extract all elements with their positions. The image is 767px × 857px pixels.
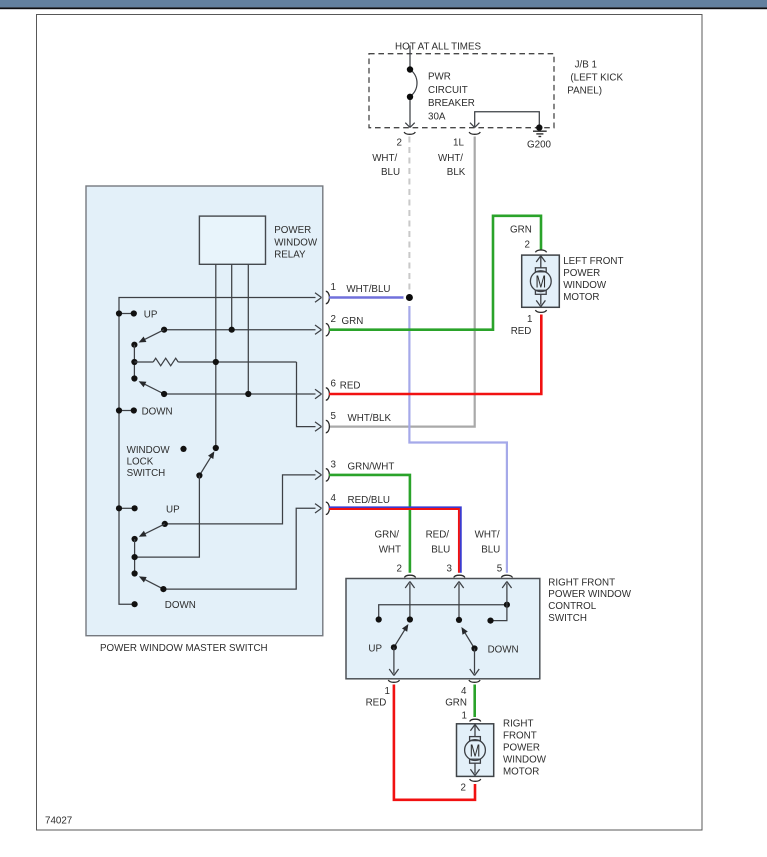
svg-text:PWR: PWR — [428, 72, 451, 83]
wire RED from control pin 1 to right front motor pin 2 — [394, 685, 475, 800]
wire WHT/BLU dashed from J/B pin 2 — [408, 137, 410, 296]
wire: left window DOWN throw row to pin 6 — [164, 393, 315, 395]
svg-text:BLU: BLU — [481, 545, 500, 556]
motor M symbol (left front) — [530, 256, 551, 307]
connector pin 2 (master) — [326, 324, 330, 336]
svg-text:3: 3 — [331, 459, 337, 470]
node: right window DOWN contact — [132, 601, 138, 607]
wire: right window DOWN throw row to pin 4 — [163, 508, 315, 589]
connector pin 5 (control switch top) — [501, 575, 512, 577]
svg-text:RED: RED — [511, 326, 532, 337]
connector pin 6 (master) — [326, 388, 330, 400]
power window master switch box — [86, 186, 323, 636]
wire: arrow up to pin 5 — [502, 582, 511, 605]
svg-text:1: 1 — [462, 711, 467, 722]
wire: relay leg 3 — [247, 264, 249, 394]
node: left window UP contact pair — [119, 313, 134, 315]
connector pin 1L of J/B — [469, 132, 480, 134]
power window relay — [199, 216, 265, 264]
node: right window switch common (master) — [132, 536, 138, 542]
connector pin 2 of J/B — [404, 132, 415, 134]
svg-text:1: 1 — [527, 314, 532, 325]
wire: pin 1 row and left bus — [119, 298, 316, 605]
switch arm: right window down (master) — [139, 576, 164, 589]
node: left window switch common — [131, 342, 137, 348]
svg-text:SWITCH: SWITCH — [127, 468, 166, 479]
ground G200 — [536, 124, 542, 130]
svg-text:2: 2 — [331, 314, 336, 325]
node: left window DOWN contact pair — [119, 410, 134, 412]
svg-text:MOTOR: MOTOR — [563, 292, 599, 303]
svg-text:GRN: GRN — [445, 698, 467, 709]
wire RED from master pin 6 to left front motor — [329, 315, 541, 395]
svg-text:GRN/: GRN/ — [375, 530, 400, 541]
svg-text:WHT/: WHT/ — [438, 153, 463, 164]
svg-text:POWER: POWER — [503, 743, 540, 754]
svg-text:BREAKER: BREAKER — [428, 98, 475, 109]
wire WHT/BLK from J/B pin 1L down to master pin 5 — [330, 137, 475, 427]
svg-text:POWER WINDOW: POWER WINDOW — [548, 589, 631, 600]
svg-text:LEFT FRONT: LEFT FRONT — [563, 256, 623, 267]
connector pin 1 (master) — [326, 291, 330, 303]
svg-text:GRN: GRN — [342, 316, 364, 327]
svg-text:POWER: POWER — [563, 268, 600, 279]
svg-text:WHT: WHT — [379, 545, 401, 556]
svg-text:PANEL): PANEL) — [567, 86, 602, 97]
svg-text:RIGHT: RIGHT — [503, 718, 533, 729]
svg-text:FRONT: FRONT — [503, 730, 537, 741]
circuit breaker PWR CIRCUIT BREAKER 30A — [405, 54, 417, 128]
svg-text:WHT/: WHT/ — [372, 153, 397, 164]
svg-text:2: 2 — [397, 138, 402, 149]
svg-text:WINDOW: WINDOW — [563, 280, 607, 291]
svg-text:DOWN: DOWN — [488, 645, 519, 656]
svg-text:WINDOW: WINDOW — [503, 755, 547, 766]
svg-text:J/B 1: J/B 1 — [575, 59, 597, 70]
svg-text:2: 2 — [525, 239, 530, 250]
svg-text:5: 5 — [331, 411, 337, 422]
svg-text:SWITCH: SWITCH — [548, 613, 587, 624]
svg-text:5: 5 — [497, 564, 503, 575]
svg-text:1: 1 — [385, 686, 390, 697]
svg-text:6: 6 — [331, 379, 337, 390]
svg-text:M: M — [470, 740, 481, 760]
svg-text:3: 3 — [447, 564, 453, 575]
switch arm: control DOWN — [461, 627, 474, 649]
wire: resistor row to pin 5 — [297, 362, 316, 427]
svg-text:WINDOW: WINDOW — [127, 445, 171, 456]
switch arm: left window down — [139, 381, 165, 394]
wire GRN/WHT from master pin 3 to right front switch pin 2 — [329, 475, 410, 573]
wire: control UP common down to pin 1 — [389, 647, 398, 675]
svg-text:G200: G200 — [527, 140, 552, 151]
svg-text:CIRCUIT: CIRCUIT — [428, 85, 468, 96]
svg-text:BLU: BLU — [381, 167, 400, 178]
connector pin 1 (left front motor bottom) — [535, 310, 546, 312]
svg-text:RED/: RED/ — [426, 530, 450, 541]
svg-text:CONTROL: CONTROL — [548, 601, 596, 612]
svg-text:POWER: POWER — [274, 225, 311, 236]
svg-text:DOWN: DOWN — [165, 600, 196, 611]
svg-text:30A: 30A — [428, 111, 446, 122]
svg-text:HOT AT ALL TIMES: HOT AT ALL TIMES — [395, 42, 481, 53]
connector pin 2 (left front motor top) — [535, 250, 546, 252]
svg-text:4: 4 — [461, 686, 467, 697]
svg-text:BLK: BLK — [447, 167, 466, 178]
wire WHT/BLU from master pin 1 — [329, 296, 404, 298]
connector pin 2 (right front motor bottom) — [470, 779, 481, 781]
pin arrows and connectors on master switch right edge — [315, 293, 322, 513]
switch arm: left window up — [139, 330, 165, 343]
svg-text:UP: UP — [144, 310, 158, 321]
wire: J/B internal branch to 1L and G200 — [470, 112, 539, 128]
right front power window motor box — [457, 724, 494, 777]
wire: left window UP throw row to pin 2 — [164, 329, 315, 331]
connector pin 4 (control switch bottom) — [469, 680, 480, 682]
wire: lock switch to lower switch common — [135, 476, 200, 558]
svg-text:4: 4 — [331, 493, 337, 504]
svg-text:WHT/BLK: WHT/BLK — [348, 413, 392, 424]
wire WHT/BLU (light) junction to right front switch pin 5 — [409, 306, 507, 573]
svg-text:RED/BLU: RED/BLU — [348, 495, 390, 506]
motor M symbol (right front) — [465, 725, 486, 776]
connector pin 1 (right front motor top) — [470, 719, 481, 721]
resistor in master switch — [134, 358, 296, 366]
svg-text:RELAY: RELAY — [274, 250, 306, 261]
switch arm: right window up (master) — [139, 524, 165, 537]
wire: elbow from bus to DOWN contact — [491, 605, 507, 621]
wire: arrow up to pin 2 — [405, 582, 414, 620]
svg-text:LOCK: LOCK — [127, 457, 154, 468]
svg-text:WINDOW: WINDOW — [274, 237, 318, 248]
svg-text:RED: RED — [340, 381, 361, 392]
connector pin 5 (master) — [326, 420, 330, 432]
svg-text:BLU: BLU — [431, 545, 450, 556]
wire: arrow up to pin 3 — [454, 582, 463, 620]
right front power window control switch box — [346, 579, 540, 679]
switch arm: control UP — [394, 624, 409, 647]
junction block J/B 1 (dashed box) — [369, 54, 554, 128]
svg-text:POWER WINDOW MASTER SWITCH: POWER WINDOW MASTER SWITCH — [100, 643, 268, 654]
svg-text:RED: RED — [366, 698, 387, 709]
wire: relay leg 1 — [215, 264, 217, 448]
svg-text:WHT/: WHT/ — [475, 530, 500, 541]
svg-text:MOTOR: MOTOR — [503, 767, 539, 778]
left front power window motor box — [522, 255, 560, 307]
connector pin 1 (control switch bottom) — [388, 680, 399, 682]
svg-text:1: 1 — [331, 282, 336, 293]
wire GRN from control pin 4 to right front motor pin 1 — [473, 685, 476, 718]
svg-text:2: 2 — [461, 783, 466, 794]
svg-text:1L: 1L — [453, 138, 464, 149]
svg-text:UP: UP — [368, 643, 382, 654]
wire: right window UP throw row to pin 3 — [165, 475, 316, 524]
svg-text:M: M — [536, 272, 547, 292]
wire: relay leg 2 — [231, 264, 233, 329]
svg-text:2: 2 — [397, 564, 402, 575]
connector pin 2 (control switch top) — [404, 575, 415, 577]
svg-text:UP: UP — [166, 504, 180, 515]
connector pin 4 (master) — [326, 502, 330, 514]
connector pin 3 (control switch top) — [454, 575, 465, 577]
wire: feed tick into J/B — [409, 46, 411, 54]
wire GRN from master pin 2 to left front motor — [329, 216, 541, 330]
svg-text:GRN: GRN — [510, 224, 532, 235]
svg-text:74027: 74027 — [45, 816, 72, 827]
svg-text:WHT/BLU: WHT/BLU — [346, 284, 390, 295]
wire: control DOWN common down to pin 4 — [470, 649, 479, 676]
node: WHT/BLU junction — [406, 294, 413, 301]
wire RED/BLU from master pin 4 to right front switch pin 3 — [329, 507, 461, 572]
connector pin 3 (master) — [326, 469, 330, 481]
node: right window UP contact pair — [119, 507, 135, 509]
svg-text:(LEFT KICK: (LEFT KICK — [570, 73, 623, 84]
svg-text:RIGHT FRONT: RIGHT FRONT — [548, 577, 615, 588]
wire: control switch internal bus — [379, 605, 507, 620]
svg-text:GRN/WHT: GRN/WHT — [348, 461, 395, 472]
svg-text:DOWN: DOWN — [142, 407, 173, 418]
